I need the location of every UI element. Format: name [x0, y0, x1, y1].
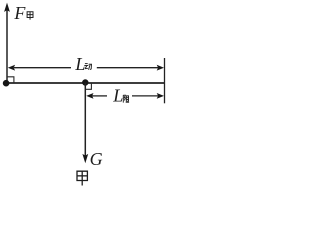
lever beam [6, 82, 165, 84]
svg-text:G: G [90, 149, 103, 169]
dimension line L动 right segment [97, 67, 159, 69]
dimension L动 left arrowhead [8, 65, 15, 71]
label subscript 甲 (drawn glyph) [27, 12, 33, 20]
caption 甲 (drawn glyph) [77, 171, 87, 185]
weight arrow G (shaft) [84, 83, 86, 156]
force arrow F (shaft) [6, 9, 8, 83]
dimension line L阻 left segment [92, 95, 108, 97]
label subscript 阻 (drawn glyph) [123, 95, 129, 103]
weight arrow G (head) [82, 154, 88, 163]
svg-text:L: L [112, 85, 123, 105]
hang point dot [82, 79, 88, 85]
dimension line L动 left segment [14, 67, 71, 69]
dimension L阻 right arrowhead [157, 93, 164, 99]
right-angle marker at G [85, 83, 91, 89]
force arrow F (head) [4, 3, 10, 12]
pivot dot (left end) [3, 80, 10, 87]
right-angle marker at F [7, 77, 14, 83]
label subscript 动 (drawn glyph) [84, 64, 91, 70]
svg-text:L: L [74, 54, 85, 74]
dimension line L阻 right segment [132, 95, 159, 97]
right extension tick line [164, 58, 166, 103]
svg-text:F: F [13, 3, 26, 23]
dimension L动 right arrowhead [157, 65, 164, 71]
dimension L阻 left arrowhead [86, 93, 93, 99]
